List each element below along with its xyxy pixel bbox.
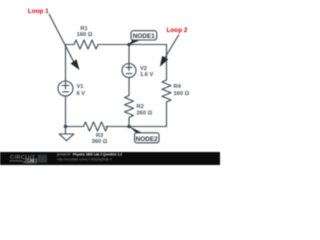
footer CircuitLab logo trace line <box>10 161 26 162</box>
footer logo side panel <box>38 155 48 163</box>
svg-text:160 Ω: 160 Ω <box>174 91 190 97</box>
V2 minus sign <box>126 73 131 75</box>
node NODE1 box <box>131 31 157 40</box>
annotation Loop 1 arrow line <box>49 14 74 61</box>
wire: R4 to bottom-right corner <box>166 102 168 127</box>
svg-text:R4: R4 <box>174 84 182 90</box>
label R3 value <box>92 133 108 145</box>
node NODE1 flag pointer <box>129 40 141 45</box>
annotation Loop 2 arrow line <box>165 35 179 58</box>
wire: R2 to NODE2 junction <box>128 118 130 127</box>
annotation Loop 1 arrowhead <box>71 59 80 70</box>
resistor R1 body <box>74 40 98 49</box>
wire: NODE1 junction to top-right corner <box>129 44 167 46</box>
svg-text:6 V: 6 V <box>77 91 86 97</box>
wire: top-left corner to R1 <box>66 44 75 46</box>
svg-text:160 Ω: 160 Ω <box>77 32 93 38</box>
label R4 value <box>174 84 190 97</box>
junction dot at ground node <box>64 125 68 129</box>
resistor R4 body <box>162 80 171 102</box>
node NODE2 flag pointer <box>129 126 143 133</box>
label R2 value <box>137 104 153 117</box>
ground symbol <box>59 127 74 141</box>
svg-text:260 Ω: 260 Ω <box>137 111 153 117</box>
footer CircuitLab logo LAB box <box>26 159 37 163</box>
label V2 value <box>140 66 153 78</box>
V2 plus sign <box>126 64 132 70</box>
resistor R2 body <box>125 96 134 118</box>
voltage source V2 circle <box>122 64 136 78</box>
label R1 value <box>77 26 93 38</box>
node NODE2 box <box>135 133 160 143</box>
wire: R1 to NODE1 junction <box>98 44 129 46</box>
svg-text:Loop 2: Loop 2 <box>167 27 188 34</box>
wire: ground junction to R3 <box>66 126 84 128</box>
svg-text:1.6 V: 1.6 V <box>140 72 153 78</box>
wire: V1 to bottom-left junction <box>65 96 67 127</box>
svg-text:http://circuitlab.com/c/7d99p9: http://circuitlab.com/c/7d99p9g5/lab-2 <box>57 157 112 161</box>
svg-text:V1: V1 <box>77 84 84 90</box>
V1 plus sign <box>62 82 69 89</box>
svg-text:jennah19 : Physics 1893 Lab 2: jennah19 : Physics 1893 Lab 2 Question 1… <box>56 153 122 157</box>
wire: V2 to R2 <box>128 78 130 96</box>
wire: middle branch NODE1 down to V2 <box>128 45 130 64</box>
V1 minus sign <box>63 91 69 93</box>
wire: bottom, NODE2 junction to bottom-right corner <box>129 126 167 128</box>
svg-text:LAB: LAB <box>28 159 36 163</box>
svg-text:Loop 1: Loop 1 <box>28 8 49 15</box>
svg-text:360 Ω: 360 Ω <box>92 139 108 145</box>
annotation Loop 2 arrowhead <box>160 56 168 67</box>
label V1 value <box>77 84 86 97</box>
svg-text:NODE1: NODE1 <box>133 33 155 40</box>
svg-text:NODE2: NODE2 <box>136 136 158 143</box>
footer bar <box>0 152 220 165</box>
voltage source V1 circle <box>58 81 73 96</box>
junction dot at NODE2 <box>127 125 131 129</box>
wire: right side top corner down to R4 <box>166 45 168 81</box>
junction dot at NODE1 <box>127 43 131 47</box>
wire: top-left corner down to V1 <box>65 45 67 82</box>
resistor R3 body <box>84 122 108 131</box>
wire: R3 to NODE2 junction <box>106 126 130 128</box>
svg-text:R2: R2 <box>137 104 144 110</box>
